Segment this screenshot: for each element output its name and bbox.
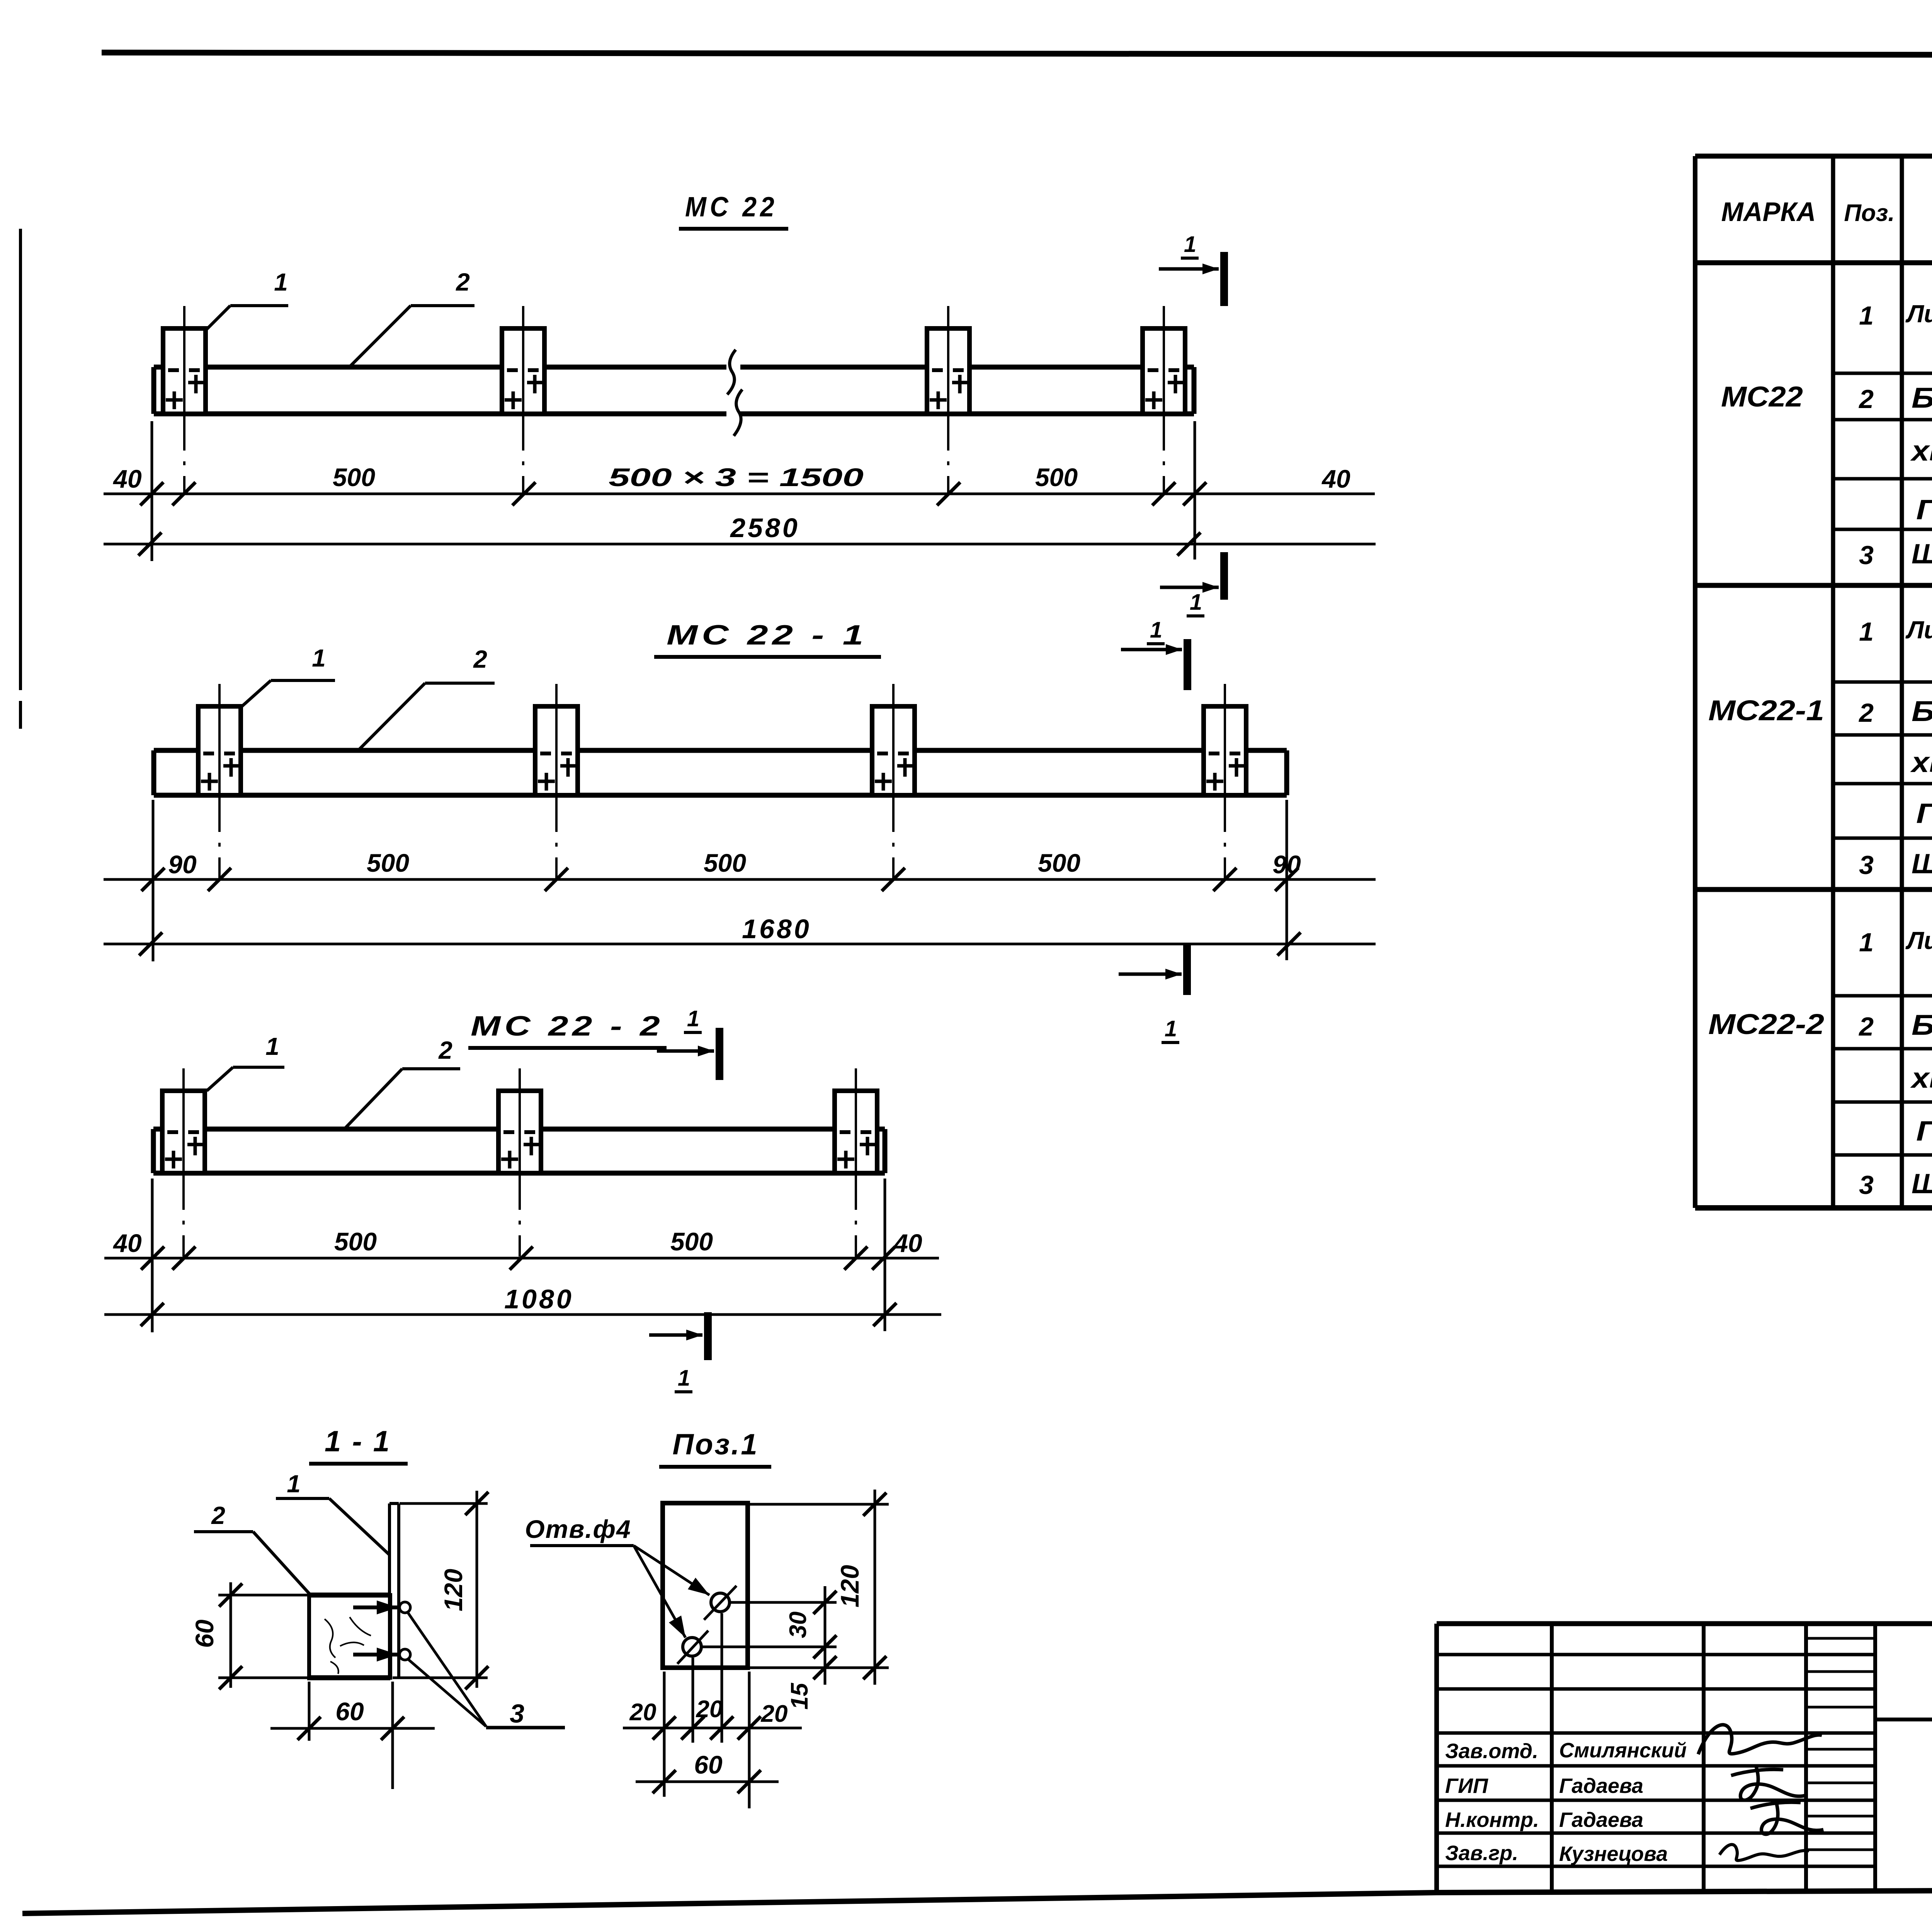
- drawing MC22-1: overall dimension 1680: [104, 914, 1376, 956]
- svg-text:1: 1: [678, 1366, 690, 1391]
- title block: role labels: [1445, 1740, 1539, 1865]
- svg-text:500: 500: [333, 463, 375, 492]
- svg-text:2: 2: [473, 645, 487, 673]
- section 1-1: steel plate (Лист поз.1) edge view: [389, 1503, 399, 1678]
- drawing MC22: leader label 2: [349, 268, 474, 368]
- svg-text:3: 3: [1859, 1170, 1874, 1200]
- svg-text:1: 1: [1859, 928, 1874, 957]
- drawing MC22: overall dimension 2580: [104, 513, 1376, 556]
- title block: signature 4: [1719, 1845, 1809, 1861]
- svg-text:1: 1: [287, 1470, 301, 1498]
- svg-text:2: 2: [1858, 1012, 1874, 1041]
- drawing MC22: dimension chain 40/500/500x3=1500/500/40: [104, 421, 1375, 561]
- svg-text:60: 60: [190, 1619, 219, 1648]
- svg-text:Шуруп 1-3,5×35, ГОСТ 1144-80: Шуруп 1-3,5×35, ГОСТ 1144-80: [1912, 539, 1932, 570]
- svg-text:Лист: Лист: [1905, 300, 1932, 328]
- drawing MC22: clip plate 2 (Лист поз.1): [502, 306, 544, 494]
- drawing MC22-2: section mark 1 top: [657, 1006, 719, 1080]
- drawing MC22-1: title: [654, 620, 881, 657]
- sheet frame: bottom border line: [22, 1893, 1437, 1913]
- section 1-1: screw 3 upper with arrow: [353, 1600, 410, 1614]
- svg-text:Зав.отд.: Зав.отд.: [1445, 1740, 1538, 1763]
- svg-text:Н.контр.: Н.контр.: [1445, 1808, 1539, 1832]
- drawing MC22-2: leader label 1: [207, 1032, 284, 1091]
- svg-text:120: 120: [835, 1565, 864, 1607]
- svg-text:40: 40: [893, 1229, 922, 1257]
- svg-text:3: 3: [1859, 850, 1874, 880]
- spec table: МС22-1 poz.2 Брус rows: [1858, 695, 1932, 830]
- svg-text:20: 20: [696, 1696, 723, 1723]
- svg-text:Смилянский: Смилянский: [1559, 1739, 1687, 1762]
- svg-text:Шуруп 1-3,5×35, ГОСТ 1144-80: Шуруп 1-3,5×35, ГОСТ 1144-80: [1912, 849, 1932, 879]
- drawing MC22-2: section mark 1 bottom: [649, 1312, 708, 1392]
- svg-text:1: 1: [274, 268, 288, 296]
- svg-text:2: 2: [438, 1036, 452, 1064]
- spec table: МС22 poz.2 Брус rows: [1858, 382, 1932, 526]
- title block: outer and vertical lines: [1437, 1624, 1932, 1893]
- drawing MC22-1: clip plate 3: [872, 684, 915, 879]
- drawing MC22-1: clip plate 2: [535, 684, 578, 879]
- svg-text:Лист: Лист: [1905, 927, 1932, 954]
- svg-text:МС22-2: МС22-2: [1708, 1008, 1824, 1040]
- svg-text:500: 500: [367, 849, 409, 877]
- drawing MC22: title: [679, 192, 788, 229]
- drawing MC22-1: clip plate 1: [198, 684, 241, 879]
- detail Поз.1: dimension 15: [786, 1656, 837, 1709]
- title block: signature 1: [1698, 1725, 1822, 1754]
- drawing MC22: section mark 1 bottom: [1160, 552, 1224, 616]
- spec table: МС22-2 poz.1 Лист row: [1859, 921, 1932, 978]
- svg-text:3: 3: [1859, 541, 1874, 570]
- svg-text:ГИП: ГИП: [1445, 1774, 1488, 1798]
- svg-text:Лист: Лист: [1905, 616, 1932, 644]
- sheet frame: top border line: [102, 53, 1932, 56]
- svg-text:МС22: МС22: [1721, 381, 1803, 413]
- drawing MC22-1: section mark 1 top: [1121, 617, 1187, 690]
- svg-text:Гадаева: Гадаева: [1559, 1808, 1643, 1832]
- svg-text:500: 500: [1038, 849, 1080, 877]
- svg-text:Брус 60×60 из древесины: Брус 60×60 из древесины: [1912, 382, 1932, 414]
- svg-text:1: 1: [1150, 617, 1162, 643]
- detail Поз.1: dimension 30: [701, 1586, 837, 1685]
- svg-text:2: 2: [456, 268, 470, 296]
- svg-text:20: 20: [761, 1701, 788, 1727]
- svg-text:Зав.гр.: Зав.гр.: [1445, 1842, 1518, 1865]
- svg-text:2: 2: [1858, 384, 1874, 414]
- svg-text:90: 90: [1272, 850, 1301, 879]
- detail Поз.1: hole callout Отв.ф4: [525, 1515, 709, 1638]
- drawing MC22-2: clip plate 3: [835, 1068, 877, 1258]
- spec table: МС22-1 poz.1 Лист row: [1859, 610, 1932, 668]
- svg-text:500 × 3 = 1500: 500 × 3 = 1500: [609, 463, 864, 492]
- drawing MC22-1: clip plate 4: [1204, 684, 1246, 879]
- section 1-1: screw 3 lower with arrow: [353, 1648, 410, 1662]
- drawing MC22-2: clip plate 1: [162, 1068, 205, 1258]
- svg-text:Брус 60×60 из древесины: Брус 60×60 из древесины: [1912, 1009, 1932, 1041]
- drawing MC22: clip plate 1 (Лист поз.1): [163, 306, 206, 494]
- detail Поз.1: dimension 60 bottom: [636, 1750, 779, 1793]
- svg-text:Отв.ф4: Отв.ф4: [525, 1515, 631, 1543]
- drawing MC22-2: title: [468, 1011, 667, 1048]
- drawing MC22-2: clip plate 2: [498, 1068, 541, 1258]
- section 1-1: wood grain texture: [325, 1617, 371, 1674]
- svg-text:1: 1: [1190, 590, 1202, 615]
- section 1-1: leader label 1: [276, 1470, 389, 1555]
- title block: doc number cell divider: [1875, 1718, 1932, 1721]
- drawing MC22: clip plate 3 (Лист поз.1): [927, 306, 969, 494]
- detail Поз.1: dimensions 20/20/20 bottom: [623, 1613, 802, 1808]
- svg-text:1 - 1: 1 - 1: [325, 1425, 391, 1458]
- title block: signature 2: [1731, 1767, 1806, 1800]
- detail Поз.1: dimension 120 right: [748, 1490, 889, 1685]
- svg-text:Брус 60×60 из древесины: Брус 60×60 из древесины: [1912, 695, 1932, 727]
- svg-text:МС 22: МС 22: [685, 192, 778, 223]
- svg-text:1: 1: [1859, 617, 1874, 646]
- svg-text:2: 2: [211, 1502, 225, 1529]
- spec table: МС22-2 poz.3 Шуруп row: [1859, 1168, 1932, 1200]
- drawing MC22-2: beam outline: [153, 1129, 885, 1173]
- svg-text:40: 40: [112, 1229, 142, 1257]
- svg-text:500: 500: [1035, 463, 1078, 492]
- section 1-1: dimension 60 vertical left: [190, 1582, 307, 1689]
- svg-text:120: 120: [439, 1569, 468, 1611]
- section 1-1: dimension 120 vertical right: [393, 1491, 488, 1689]
- section 1-1: leader label 2: [194, 1502, 310, 1594]
- spec table: outer border and verticals: [1695, 156, 1932, 1208]
- svg-text:Гадаева: Гадаева: [1559, 1774, 1643, 1798]
- svg-text:МАРКА: МАРКА: [1721, 197, 1816, 227]
- svg-text:1: 1: [687, 1006, 699, 1031]
- detail Поз.1: hole 1 (upper): [704, 1586, 736, 1620]
- drawing MC22: leader label 1: [207, 268, 288, 329]
- detail Поз.1: plate outline 60x120: [663, 1503, 748, 1668]
- detail Поз.1: title: [659, 1428, 771, 1467]
- spec table: МС22-1 poz.3 Шуруп row: [1859, 848, 1932, 880]
- svg-text:40: 40: [1321, 464, 1350, 493]
- svg-text:ГОСТ 24454-80Е, ℓ = 2580: ГОСТ 24454-80Е, ℓ = 2580: [1916, 495, 1932, 526]
- svg-text:30: 30: [785, 1612, 811, 1638]
- svg-text:60: 60: [335, 1697, 364, 1726]
- spec table: МС22-2 poz.2 Брус rows: [1858, 1009, 1932, 1148]
- svg-text:хвойных пород 2 сорта: хвойных пород 2 сорта: [1910, 1062, 1932, 1094]
- section 1-1: title: [309, 1425, 408, 1464]
- svg-text:15: 15: [786, 1682, 813, 1709]
- svg-text:1680: 1680: [742, 914, 811, 944]
- svg-text:Кузнецова: Кузнецова: [1559, 1842, 1668, 1866]
- svg-text:2: 2: [1858, 698, 1874, 728]
- svg-text:500: 500: [670, 1227, 713, 1256]
- svg-text:90: 90: [168, 850, 197, 879]
- drawing MC22: beam (wood bar) outline: [154, 367, 1194, 414]
- detail Поз.1: hole 2 (lower): [677, 1631, 708, 1664]
- svg-text:1: 1: [265, 1032, 279, 1060]
- title block: left part row lines: [1437, 1638, 1875, 1866]
- section 1-1: leader label 3: [408, 1613, 565, 1728]
- drawing MC22-1: leader label 1: [242, 644, 335, 706]
- spec table: МС22 poz.1 Лист row: [1859, 294, 1932, 352]
- svg-text:500: 500: [334, 1227, 377, 1256]
- svg-text:Поз.1: Поз.1: [672, 1428, 759, 1461]
- svg-text:1: 1: [1859, 301, 1874, 330]
- section 1-1: dimension 60 horizontal bottom: [270, 1682, 435, 1789]
- drawing MC22: break symbol in beam: [726, 350, 742, 436]
- drawing MC22: section mark 1 top: [1159, 232, 1224, 306]
- drawing MC22-1: section mark 1 bottom: [1119, 945, 1187, 1043]
- svg-text:Шуруп 1-3,5×35, ГОСТ 1144-80: Шуруп 1-3,5×35, ГОСТ 1144-80: [1912, 1168, 1932, 1199]
- drawing MC22-1: dimension chain 90/500/500/500/90: [104, 800, 1376, 961]
- drawing MC22-1: beam outline: [154, 750, 1287, 795]
- svg-text:МС22-1: МС22-1: [1708, 694, 1824, 726]
- svg-text:МС 22 - 1: МС 22 - 1: [667, 620, 867, 651]
- svg-text:20: 20: [629, 1699, 656, 1726]
- sheet frame: left edge partial line: [19, 229, 22, 690]
- svg-text:ГОСТ 24454-80Е, ℓ = 1080: ГОСТ 24454-80Е, ℓ = 1080: [1916, 1116, 1932, 1147]
- svg-text:хвойных пород 2 сорта: хвойных пород 2 сорта: [1910, 746, 1932, 778]
- svg-text:1: 1: [312, 644, 326, 672]
- section 1-1: wood block (Брус 60x60): [307, 1595, 390, 1678]
- svg-text:1080: 1080: [504, 1284, 574, 1314]
- svg-text:1: 1: [1165, 1016, 1177, 1041]
- spec table: section divider lines: [1695, 583, 1932, 588]
- svg-text:1: 1: [1184, 232, 1196, 257]
- spec table: header texts: [1721, 174, 1932, 261]
- svg-text:Поз.: Поз.: [1844, 200, 1895, 226]
- svg-text:2580: 2580: [730, 513, 800, 543]
- spec table: header row line: [1695, 260, 1932, 265]
- title block: names: [1559, 1739, 1687, 1866]
- title block: signature 3: [1750, 1799, 1823, 1834]
- svg-text:хвойных пород 2 сорта: хвойных пород 2 сорта: [1910, 435, 1932, 467]
- svg-text:40: 40: [112, 464, 142, 493]
- drawing MC22-2: dimension chain 40/500/500/40: [104, 1179, 939, 1332]
- svg-text:3: 3: [510, 1699, 524, 1728]
- drawing MC22-1: leader label 2: [358, 645, 495, 750]
- svg-text:МС 22 - 2: МС 22 - 2: [471, 1011, 664, 1042]
- drawing MC22-2: overall dimension 1080: [104, 1284, 941, 1326]
- svg-text:500: 500: [704, 849, 746, 877]
- spec table: МС22 poz.3 Шуруп row: [1859, 538, 1932, 570]
- spec table: inner row lines: [1833, 373, 1932, 1155]
- drawing MC22-2: leader label 2: [344, 1036, 460, 1129]
- drawing MC22: clip plate 4 (Лист поз.1): [1143, 306, 1185, 494]
- svg-text:ГОСТ 24454-80Е, ℓ = 1680: ГОСТ 24454-80Е, ℓ = 1680: [1916, 798, 1932, 829]
- svg-text:60: 60: [694, 1750, 723, 1779]
